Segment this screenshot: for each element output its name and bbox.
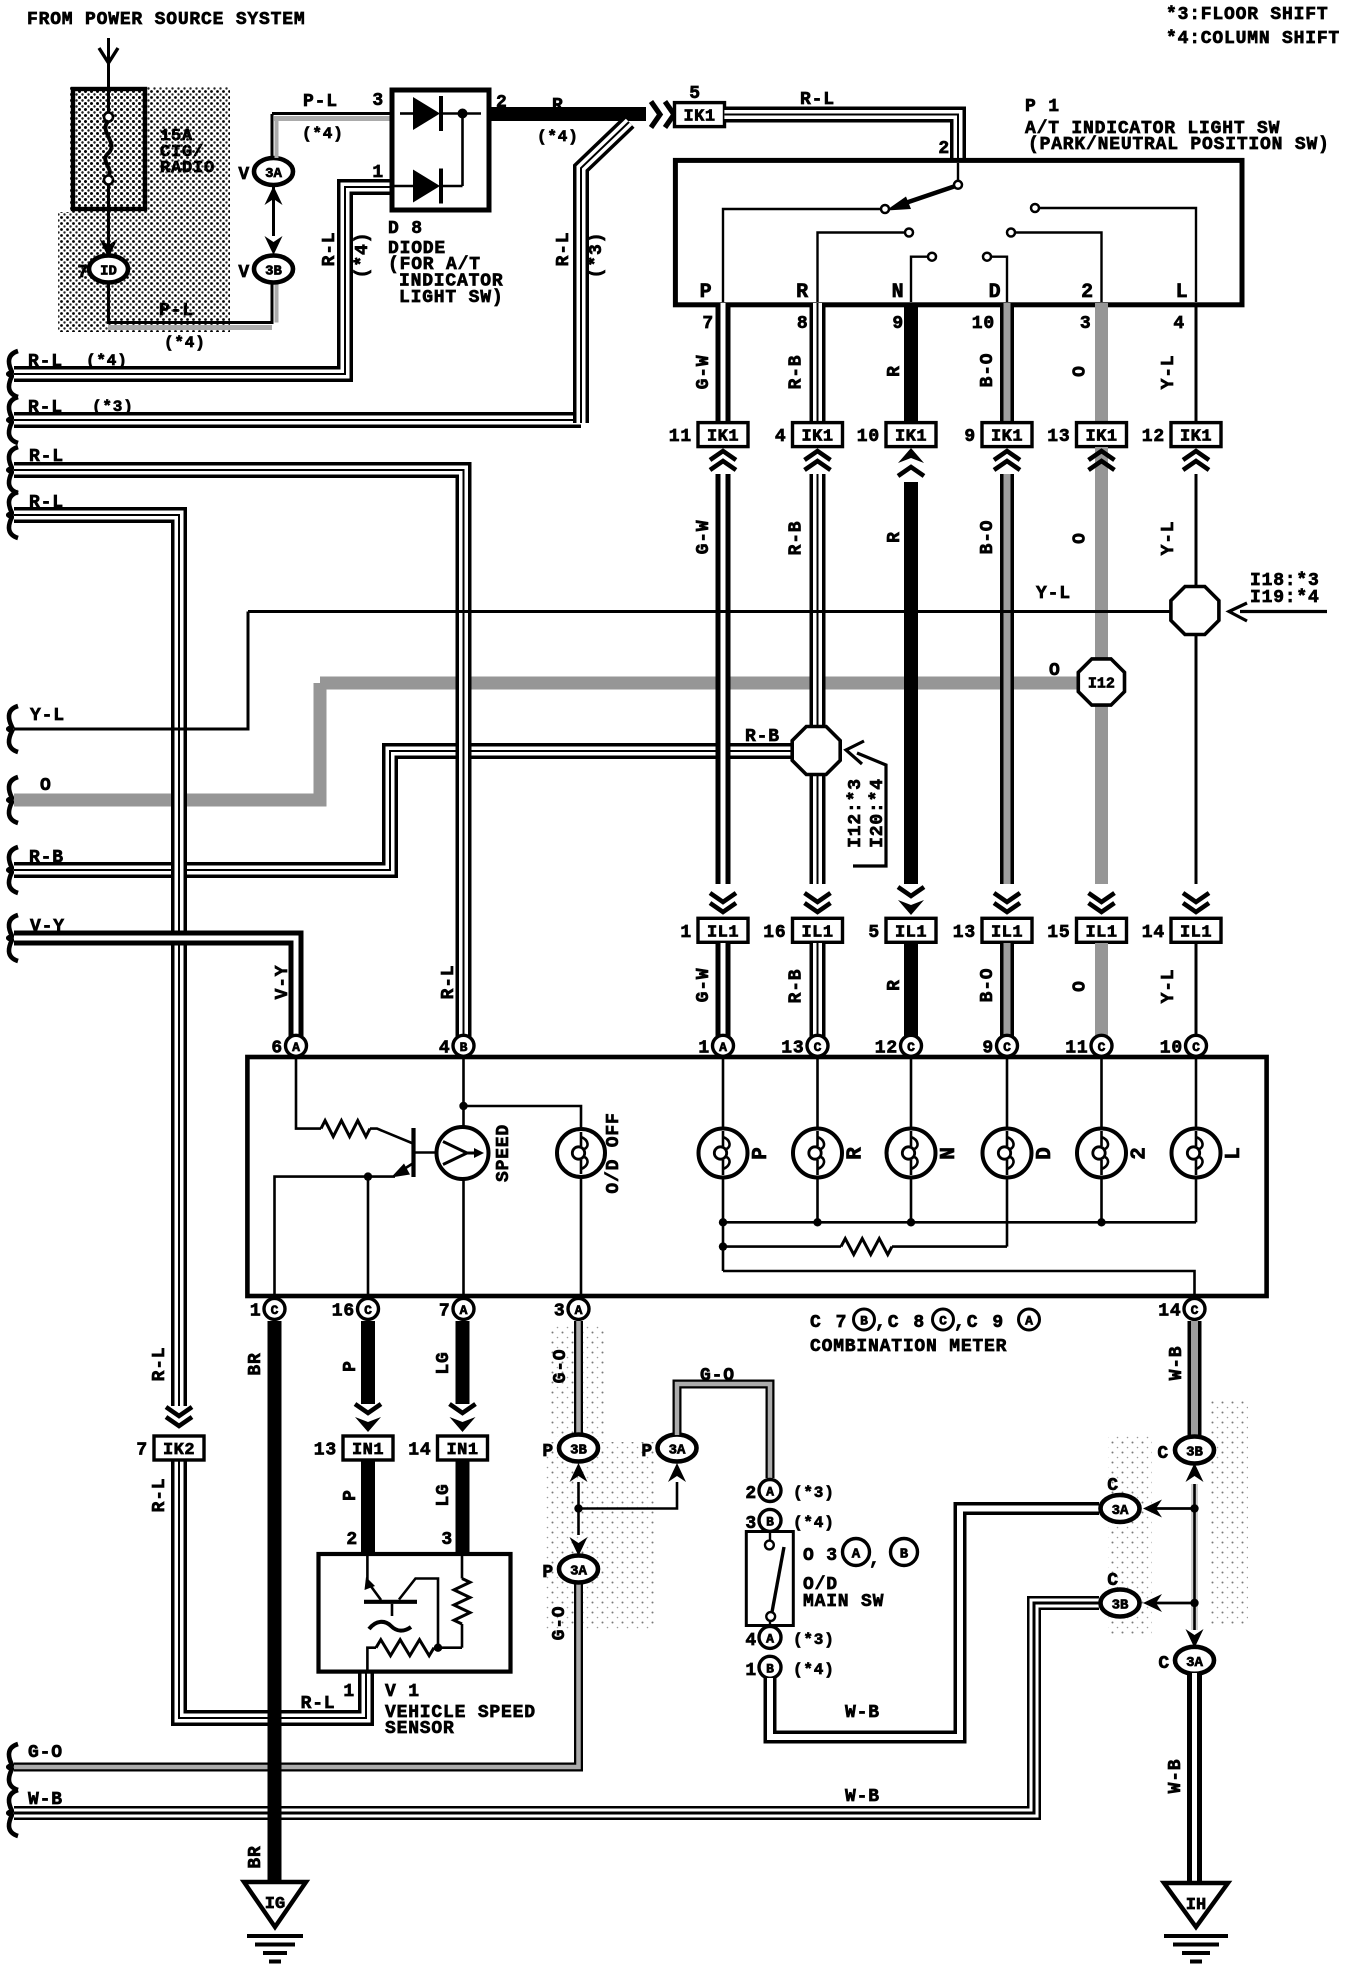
svg-text:3A: 3A bbox=[1112, 1503, 1129, 1519]
wire G-O loop from P3A upper to O/D main switch bbox=[677, 1384, 770, 1478]
junction octagon R-B bbox=[792, 727, 840, 775]
svg-text:7: 7 bbox=[136, 1441, 148, 1461]
svg-text:(*4): (*4) bbox=[537, 128, 579, 146]
wire P-L from ID to 3B bbox=[107, 282, 110, 322]
connector C 3B top bbox=[1186, 1463, 1204, 1482]
svg-text:G-O: G-O bbox=[28, 1743, 63, 1763]
svg-text:W-B: W-B bbox=[845, 1787, 880, 1807]
svg-text:LG: LG bbox=[434, 1483, 454, 1506]
meter top pin 12 C bbox=[901, 1035, 922, 1056]
wire O gray horizontal to I12 bbox=[320, 677, 1077, 690]
arrows up into IK1 row bbox=[710, 451, 736, 460]
stipple near C connectors bbox=[1108, 1435, 1152, 1635]
svg-text:(*4): (*4) bbox=[302, 125, 344, 143]
svg-text:C: C bbox=[1191, 1303, 1199, 1318]
ground IG bbox=[244, 1882, 306, 1927]
svg-text:1: 1 bbox=[745, 1661, 757, 1681]
svg-text:(*3): (*3) bbox=[793, 1631, 835, 1649]
svg-text:N: N bbox=[938, 1146, 961, 1159]
svg-text:BR: BR bbox=[246, 1352, 266, 1375]
svg-text:14: 14 bbox=[1158, 1301, 1181, 1321]
svg-text:16: 16 bbox=[332, 1301, 355, 1321]
svg-text:A: A bbox=[460, 1303, 468, 1318]
meter top pin 9 C bbox=[997, 1035, 1018, 1056]
svg-text:4: 4 bbox=[775, 427, 787, 447]
lamp common bus bbox=[723, 1221, 1196, 1224]
V1 transistor bbox=[366, 1556, 369, 1582]
svg-text:C: C bbox=[1157, 1444, 1169, 1464]
lamp R bbox=[816, 1057, 819, 1130]
svg-text:Y-L: Y-L bbox=[1159, 355, 1179, 390]
stipple around P connectors bbox=[545, 1442, 655, 1630]
svg-text:3B: 3B bbox=[1186, 1445, 1203, 1461]
svg-text:G-W: G-W bbox=[694, 968, 714, 1003]
V1 pickup wave symbol bbox=[369, 1622, 411, 1631]
svg-text:IK1: IK1 bbox=[1085, 428, 1117, 447]
svg-text:IL1: IL1 bbox=[895, 923, 927, 942]
svg-text:LG: LG bbox=[434, 1351, 454, 1374]
wires below IL1 to combination meter pins bbox=[716, 943, 731, 1040]
svg-text:R-L: R-L bbox=[28, 352, 63, 372]
svg-text:C: C bbox=[271, 1303, 279, 1318]
svg-text:Y-L: Y-L bbox=[30, 706, 65, 726]
connector C 3B lower bbox=[1101, 1590, 1140, 1617]
switch P1 A/T indicator light switch box bbox=[675, 160, 1242, 304]
svg-text:13: 13 bbox=[1047, 427, 1070, 447]
svg-text:6: 6 bbox=[271, 1038, 283, 1058]
svg-text:9: 9 bbox=[964, 427, 976, 447]
arrow leader to I18/I19 bbox=[1240, 610, 1327, 613]
junction connector I12 octagon bbox=[1078, 659, 1124, 705]
svg-text:9: 9 bbox=[892, 314, 904, 334]
meter internal: resistor to transistor base bbox=[296, 1057, 321, 1129]
junction inside diode box bbox=[461, 114, 464, 187]
svg-text:(*4): (*4) bbox=[793, 1661, 835, 1679]
svg-text:10: 10 bbox=[972, 314, 995, 334]
svg-text:V 1: V 1 bbox=[385, 1682, 420, 1702]
svg-text:V-Y: V-Y bbox=[273, 965, 293, 1000]
svg-text:C: C bbox=[814, 1040, 822, 1055]
wire B-O column from P1 to IK1 bbox=[1000, 303, 1014, 421]
svg-text:C: C bbox=[1107, 1476, 1119, 1496]
svg-text:O/D OFF: O/D OFF bbox=[604, 1112, 624, 1193]
svg-text:R-L: R-L bbox=[29, 447, 64, 467]
V1 right resistor bbox=[461, 1556, 464, 1579]
wire Y-L column from P1 to IK1 bbox=[1195, 303, 1198, 421]
left edge wire R-L (*3) bbox=[8, 397, 18, 443]
svg-text:B: B bbox=[766, 1661, 774, 1676]
svg-text:C: C bbox=[939, 1314, 947, 1329]
svg-text:R-L: R-L bbox=[320, 232, 340, 267]
svg-text:14: 14 bbox=[1142, 923, 1165, 943]
wire O gray column from P1 to IK1 bbox=[1095, 303, 1108, 421]
svg-text:MAIN SW: MAIN SW bbox=[803, 1592, 884, 1612]
svg-text:G-O: G-O bbox=[700, 1366, 735, 1386]
svg-text:A: A bbox=[766, 1631, 774, 1646]
wire 3B to 3A with mating arrows bbox=[272, 185, 275, 236]
wire W-B from C3A bottom to ground IH bbox=[1187, 1673, 1202, 1881]
diode D8 top diode bbox=[400, 112, 413, 115]
connector IN1 pin 14 bbox=[438, 1436, 488, 1460]
svg-text:ID: ID bbox=[100, 264, 117, 280]
connector IK2 pin 7 bbox=[154, 1436, 204, 1460]
svg-text:13: 13 bbox=[953, 923, 976, 943]
connector P 3B bbox=[570, 1463, 588, 1482]
svg-text:A: A bbox=[1025, 1314, 1033, 1329]
svg-text:R-B: R-B bbox=[787, 969, 807, 1004]
junction under P3B bbox=[577, 1482, 580, 1535]
svg-text:RADIO: RADIO bbox=[160, 159, 215, 178]
connector IN1 pin 13 bbox=[343, 1436, 393, 1460]
lamp L bbox=[1195, 1057, 1198, 1130]
contact R bbox=[905, 229, 913, 237]
svg-text:3A: 3A bbox=[1186, 1655, 1203, 1671]
wire feed from power source system bbox=[107, 38, 110, 89]
svg-text:(*3): (*3) bbox=[92, 398, 134, 416]
meter bottom pin 14 C bbox=[1184, 1298, 1205, 1319]
svg-text:SENSOR: SENSOR bbox=[385, 1719, 455, 1739]
svg-text:*4:COLUMN SHIFT: *4:COLUMN SHIFT bbox=[1166, 29, 1340, 49]
meter bottom pin 7 A bbox=[453, 1298, 474, 1319]
junction chain to C3A and C3B bbox=[1191, 1484, 1198, 1630]
wire P from IN1 to V1 pin 2 bbox=[361, 1461, 375, 1552]
svg-text:3A: 3A bbox=[570, 1564, 587, 1580]
arrow down into C 3A bottom bbox=[1186, 1629, 1204, 1648]
svg-text:3A: 3A bbox=[265, 166, 282, 182]
left edge wire V-Y to meter pin 6A bbox=[8, 915, 18, 961]
svg-text:R-B: R-B bbox=[745, 727, 780, 747]
meter top pin 11 C bbox=[1091, 1035, 1112, 1056]
connector V 3B bbox=[254, 256, 293, 283]
chevrons into IK1 pin 5 bbox=[651, 102, 660, 128]
svg-text:13: 13 bbox=[314, 1441, 337, 1461]
svg-text:G-O: G-O bbox=[550, 1606, 570, 1641]
svg-text:B: B bbox=[900, 1547, 909, 1563]
svg-text:R-L: R-L bbox=[29, 493, 64, 513]
meter bottom pin 16 C bbox=[358, 1298, 379, 1319]
diode D8 bottom diode bbox=[392, 185, 413, 188]
svg-text:3: 3 bbox=[1080, 314, 1092, 334]
svg-text:P: P bbox=[750, 1146, 773, 1159]
svg-text:B-O: B-O bbox=[978, 968, 998, 1003]
wire G-O from meter pin 3A to P3B bbox=[574, 1321, 583, 1434]
svg-text:12: 12 bbox=[875, 1038, 898, 1058]
svg-text:(*4): (*4) bbox=[86, 352, 128, 370]
arrow leader I12/I20 bbox=[853, 753, 886, 866]
svg-text:C: C bbox=[1107, 1571, 1119, 1591]
wire P-L from 3A to diode pin 3 bbox=[271, 114, 274, 158]
junction connector I18/I19 octagon bbox=[1171, 587, 1219, 635]
svg-text:12: 12 bbox=[1142, 427, 1165, 447]
junction to O/D OFF lamp bbox=[459, 1102, 467, 1110]
svg-text:1: 1 bbox=[343, 1682, 355, 1702]
svg-text:14: 14 bbox=[408, 1441, 431, 1461]
wire W-B loop from O/D SW pin 1B to C3A bbox=[770, 1509, 1099, 1738]
svg-text:B: B bbox=[860, 1314, 868, 1329]
wire G-W column from P1 to IK1 bbox=[716, 303, 731, 421]
svg-text:B-O: B-O bbox=[978, 353, 998, 388]
svg-text:P: P bbox=[641, 1442, 653, 1462]
left edge wire R-L (*4) to diode pin 1 bbox=[8, 351, 18, 397]
wire W-B from meter 14C down to C3B bbox=[1188, 1321, 1202, 1436]
svg-text:A: A bbox=[292, 1040, 300, 1055]
wire BR thick from pin 1C to ground IG bbox=[268, 1321, 282, 1880]
sensor V1 vehicle speed sensor box bbox=[319, 1554, 511, 1672]
svg-text:,: , bbox=[869, 1550, 881, 1570]
svg-text:3: 3 bbox=[554, 1301, 566, 1321]
emitter wire to pins 1C and 16C bbox=[275, 1177, 396, 1305]
svg-text:V-Y: V-Y bbox=[30, 917, 65, 937]
svg-text:N: N bbox=[892, 281, 905, 304]
branch to P 3A upper bbox=[579, 1482, 678, 1509]
svg-text:O: O bbox=[1071, 980, 1091, 992]
svg-text:5: 5 bbox=[868, 923, 880, 943]
svg-text:7: 7 bbox=[439, 1301, 451, 1321]
svg-text:R-L: R-L bbox=[554, 232, 574, 267]
lamp P bbox=[722, 1057, 725, 1130]
svg-text:C: C bbox=[364, 1303, 372, 1318]
svg-text:10: 10 bbox=[857, 427, 880, 447]
switch O/D MAIN SW box bbox=[746, 1532, 793, 1626]
lamp 2 bbox=[1100, 1057, 1103, 1130]
wire fuse to connector ID bbox=[107, 209, 110, 245]
svg-text:4: 4 bbox=[1173, 314, 1185, 334]
svg-text:P: P bbox=[700, 281, 713, 304]
wire R-L from IK1 5 to P1 pin 2 bbox=[724, 115, 958, 162]
wire Y-L horizontal to junction I18/I19 bbox=[248, 610, 1170, 613]
svg-text:(*3): (*3) bbox=[587, 232, 607, 278]
O/D main switch pin 1 B (*4) bbox=[759, 1656, 781, 1678]
wire R-L from IK2 to V1 pin 1 bbox=[179, 1461, 366, 1718]
svg-text:1: 1 bbox=[372, 163, 384, 183]
combination meter box bbox=[247, 1057, 1266, 1296]
svg-text:W-B: W-B bbox=[28, 1790, 63, 1810]
svg-text:V: V bbox=[238, 263, 250, 283]
svg-text:C 7: C 7 bbox=[810, 1313, 848, 1333]
wire R (*4) thick from diode pin 2 bbox=[489, 107, 646, 121]
speedometer SPEED gauge bbox=[462, 1057, 465, 1127]
svg-text:IL1: IL1 bbox=[801, 923, 833, 942]
connector 7 ID bbox=[89, 256, 128, 283]
svg-text:2: 2 bbox=[745, 1484, 757, 1504]
svg-text:,C 9: ,C 9 bbox=[954, 1313, 1005, 1333]
svg-text:C: C bbox=[1098, 1040, 1106, 1055]
svg-text:O: O bbox=[1071, 532, 1091, 544]
meter top pin 6 A bbox=[286, 1035, 307, 1056]
svg-text:A: A bbox=[852, 1547, 861, 1563]
stipple highlight around fuse bbox=[70, 87, 230, 212]
svg-text:P: P bbox=[341, 1360, 361, 1372]
svg-text:15: 15 bbox=[1047, 923, 1070, 943]
svg-text:A: A bbox=[575, 1303, 583, 1318]
stipple around G-O meter wire bbox=[550, 1325, 605, 1437]
svg-text:IH: IH bbox=[1186, 1896, 1206, 1915]
svg-text:O: O bbox=[1049, 661, 1061, 681]
svg-text:O: O bbox=[1071, 365, 1091, 377]
svg-text:,C 8: ,C 8 bbox=[875, 1313, 926, 1333]
svg-text:I12: I12 bbox=[1088, 676, 1115, 693]
meter top pin 1 A bbox=[713, 1035, 734, 1056]
switch pivot and arm bbox=[957, 163, 959, 181]
svg-text:3B: 3B bbox=[570, 1443, 587, 1459]
svg-text:(*4): (*4) bbox=[793, 1514, 835, 1532]
svg-text:Y-L: Y-L bbox=[1036, 584, 1071, 604]
wire P thick from pin 16C to IN1 bbox=[361, 1321, 375, 1404]
svg-text:3: 3 bbox=[441, 1530, 453, 1550]
svg-text:IK1: IK1 bbox=[991, 428, 1023, 447]
svg-text:G-W: G-W bbox=[694, 520, 714, 555]
contact L bbox=[1031, 204, 1039, 212]
svg-text:B-O: B-O bbox=[978, 520, 998, 555]
wire G-O from left edge to P3A connector bbox=[8, 1744, 18, 1790]
arrows down into IL1 row bbox=[710, 903, 736, 912]
svg-text:1: 1 bbox=[250, 1301, 262, 1321]
svg-text:SPEED: SPEED bbox=[494, 1124, 514, 1182]
svg-text:A: A bbox=[766, 1485, 774, 1500]
svg-text:IL1: IL1 bbox=[991, 923, 1023, 942]
wire LG thick from pin 7A to IN1 bbox=[456, 1321, 470, 1404]
svg-text:R-L: R-L bbox=[800, 90, 835, 110]
meter top pin 10 C bbox=[1186, 1035, 1207, 1056]
connector C 3A middle bbox=[1101, 1495, 1140, 1522]
ground IH bbox=[1164, 1883, 1228, 1927]
svg-text:P-L: P-L bbox=[303, 92, 338, 112]
svg-text:W-B: W-B bbox=[1166, 1759, 1186, 1794]
O/D main switch pin 2 A (*3) bbox=[759, 1480, 781, 1502]
fuse 15A CIG/RADIO bbox=[73, 89, 145, 209]
left edge wire R-B bbox=[8, 847, 18, 893]
lamp O/D OFF bbox=[580, 1176, 583, 1305]
svg-text:1: 1 bbox=[698, 1038, 710, 1058]
connector C 3A bottom bbox=[1175, 1647, 1214, 1674]
svg-text:R-B: R-B bbox=[29, 848, 64, 868]
arrow down into IK2 bbox=[166, 1417, 192, 1426]
svg-text:IL1: IL1 bbox=[1085, 923, 1117, 942]
svg-text:C: C bbox=[1192, 1040, 1200, 1055]
svg-text:2: 2 bbox=[1129, 1146, 1152, 1159]
wire R thick column from P1 to IK1 bbox=[904, 303, 918, 421]
left edge wire O gray bbox=[8, 777, 18, 823]
wire LG from IN1 to V1 pin 3 bbox=[456, 1461, 470, 1552]
svg-text:7: 7 bbox=[77, 263, 89, 283]
svg-text:L: L bbox=[1176, 281, 1189, 304]
transistor in meter bbox=[411, 1128, 415, 1177]
O/D main switch pin 3 B (*4) bbox=[759, 1509, 781, 1531]
svg-text:(*3): (*3) bbox=[793, 1484, 835, 1502]
contact 2 bbox=[1007, 229, 1015, 237]
svg-text:Y-L: Y-L bbox=[1159, 969, 1179, 1004]
svg-text:4: 4 bbox=[439, 1038, 451, 1058]
svg-text:D: D bbox=[989, 281, 1002, 304]
svg-text:R-L: R-L bbox=[150, 1347, 170, 1382]
contact N bbox=[928, 253, 936, 261]
svg-text:W-B: W-B bbox=[1167, 1346, 1187, 1381]
svg-text:FROM POWER SOURCE SYSTEM: FROM POWER SOURCE SYSTEM bbox=[27, 10, 305, 30]
svg-text:I19:*4: I19:*4 bbox=[1250, 588, 1320, 608]
svg-text:B: B bbox=[766, 1514, 774, 1529]
svg-text:R-B: R-B bbox=[787, 355, 807, 390]
svg-text:IL1: IL1 bbox=[707, 923, 739, 942]
meter bottom pin 3 A bbox=[568, 1298, 589, 1319]
svg-text:C: C bbox=[907, 1040, 915, 1055]
contact D bbox=[983, 253, 991, 261]
svg-text:*3:FLOOR SHIFT: *3:FLOOR SHIFT bbox=[1166, 5, 1328, 25]
svg-text:C: C bbox=[1003, 1040, 1011, 1055]
svg-text:(*4): (*4) bbox=[164, 334, 206, 352]
svg-text:BR: BR bbox=[246, 1845, 266, 1868]
svg-text:4: 4 bbox=[745, 1631, 757, 1651]
svg-text:IK1: IK1 bbox=[1180, 428, 1212, 447]
svg-text:L: L bbox=[1223, 1146, 1246, 1159]
svg-text:R-L: R-L bbox=[439, 965, 459, 1000]
svg-text:IN1: IN1 bbox=[352, 1441, 384, 1460]
svg-text:R: R bbox=[845, 1146, 868, 1159]
wire R-L (*3) riser joining at IK1 5 bbox=[581, 122, 629, 423]
svg-text:11: 11 bbox=[1065, 1038, 1088, 1058]
svg-text:R: R bbox=[885, 365, 905, 377]
svg-text:R-L: R-L bbox=[28, 398, 63, 418]
svg-text:IK1: IK1 bbox=[801, 428, 833, 447]
svg-text:W-B: W-B bbox=[845, 1703, 880, 1723]
bus resistor branch bbox=[722, 1222, 725, 1271]
svg-text:(PARK/NEUTRAL POSITION SW): (PARK/NEUTRAL POSITION SW) bbox=[1028, 135, 1330, 155]
svg-text:R-L: R-L bbox=[150, 1478, 170, 1513]
connector row IK1 bbox=[698, 423, 748, 447]
svg-text:P: P bbox=[341, 1489, 361, 1501]
svg-text:5: 5 bbox=[689, 84, 701, 104]
svg-text:2: 2 bbox=[346, 1530, 358, 1550]
svg-text:10: 10 bbox=[1160, 1038, 1183, 1058]
svg-text:O 3: O 3 bbox=[803, 1546, 838, 1566]
lamp N bbox=[910, 1057, 913, 1130]
svg-text:G-W: G-W bbox=[694, 355, 714, 390]
left edge wire R-L to IK2 bbox=[8, 492, 18, 538]
svg-text:2: 2 bbox=[938, 139, 950, 159]
svg-text:D: D bbox=[1034, 1146, 1057, 1159]
svg-text:1: 1 bbox=[680, 923, 692, 943]
svg-text:P-L: P-L bbox=[159, 301, 194, 321]
meter top pin 4 B bbox=[453, 1035, 474, 1056]
svg-text:IL1: IL1 bbox=[1180, 923, 1212, 942]
O/D main switch pin 4 A (*3) bbox=[759, 1626, 781, 1648]
arrow into 3B bbox=[265, 236, 283, 255]
svg-text:3B: 3B bbox=[1112, 1598, 1129, 1614]
svg-text:R: R bbox=[885, 979, 905, 991]
svg-text:3B: 3B bbox=[265, 264, 282, 280]
svg-text:3: 3 bbox=[372, 91, 384, 111]
svg-text:COMBINATION METER: COMBINATION METER bbox=[810, 1337, 1007, 1357]
svg-text:A: A bbox=[719, 1040, 727, 1055]
svg-text:11: 11 bbox=[669, 427, 692, 447]
svg-text:R: R bbox=[885, 531, 905, 543]
left edge wire Y-L bbox=[8, 706, 18, 752]
svg-text:7: 7 bbox=[702, 314, 714, 334]
svg-text:P: P bbox=[542, 1442, 554, 1462]
wire R-B column from P1 to IK1 bbox=[810, 303, 826, 421]
svg-text:2: 2 bbox=[1081, 281, 1094, 304]
svg-text:8: 8 bbox=[797, 314, 809, 334]
svg-text:IG: IG bbox=[265, 1895, 285, 1914]
svg-text:Y-L: Y-L bbox=[1159, 521, 1179, 556]
svg-text:P: P bbox=[542, 1563, 554, 1583]
V1 bottom resistor bbox=[367, 1648, 376, 1671]
svg-text:IK1: IK1 bbox=[707, 428, 739, 447]
svg-text:P 1: P 1 bbox=[1025, 97, 1060, 117]
svg-text:R: R bbox=[796, 281, 809, 304]
svg-text:9: 9 bbox=[982, 1038, 994, 1058]
svg-text:IN1: IN1 bbox=[446, 1441, 478, 1460]
arrow down to P 3A lower bbox=[570, 1537, 588, 1556]
